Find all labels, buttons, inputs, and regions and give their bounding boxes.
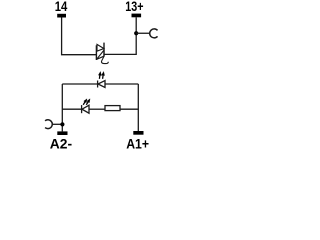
triac U1 lower triangle xyxy=(97,50,104,59)
input loop top edge left part xyxy=(62,83,97,85)
svg-text:A1+: A1+ xyxy=(126,136,149,150)
wire from terminal 14 down and right to triac xyxy=(62,17,97,55)
input loop bottom edge middle part xyxy=(89,108,105,110)
resistor R1 xyxy=(105,106,120,111)
input loop right edge down to A1+ xyxy=(137,84,139,131)
svg-text:14: 14 xyxy=(55,0,68,14)
terminal 13+ xyxy=(132,14,142,18)
triac U1 upper triangle xyxy=(97,44,104,51)
LED D1 triangle xyxy=(98,81,105,88)
wire from terminal 13+ down and left to triac xyxy=(104,17,136,54)
node junction dot at 13+ wire xyxy=(134,31,138,35)
socket contact (half circle, opens left) xyxy=(45,120,52,129)
input loop left edge xyxy=(61,84,63,131)
terminal A2- xyxy=(57,131,67,135)
input loop bottom edge right part xyxy=(120,108,138,110)
LED D2 triangle xyxy=(82,105,89,113)
LED D2 light arrows xyxy=(82,98,91,106)
svg-text:A2-: A2- xyxy=(50,136,73,150)
input loop bottom edge left part xyxy=(62,108,81,110)
triac U1 gate lead xyxy=(101,56,108,64)
triac U1 left bar xyxy=(95,45,97,60)
socket contact (half circle, opens right) xyxy=(150,29,158,38)
svg-text:13+: 13+ xyxy=(125,0,143,14)
LED D2 cathode bar xyxy=(81,105,83,113)
terminal 14 xyxy=(57,14,66,18)
input loop top edge right part xyxy=(105,83,138,85)
LED D1 light arrows xyxy=(98,71,105,79)
wire socket to junction xyxy=(52,123,62,125)
terminal A1+ xyxy=(133,131,143,135)
LED D1 cathode bar xyxy=(97,81,99,88)
node junction dot at A2- wire xyxy=(60,122,64,126)
wire junction to socket xyxy=(136,32,150,34)
triac U1 right bar xyxy=(103,43,105,57)
